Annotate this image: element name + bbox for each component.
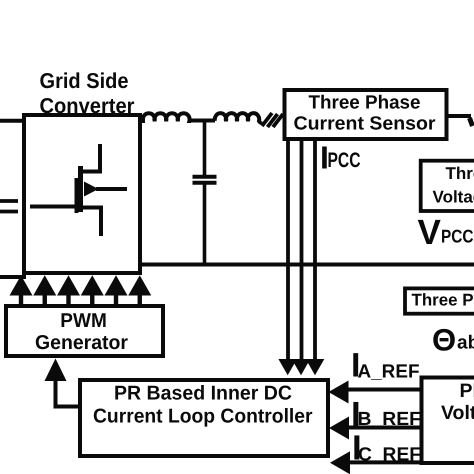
svg-text:Three P: Three P [412,291,474,310]
svg-text:C_REF: C_REF [358,445,421,466]
wire IC_REF [347,460,422,464]
transistor gate bar [75,178,79,213]
PLL voltage controller box (cut off) [422,378,474,464]
arrowhead IB_REF [329,417,349,440]
svg-text:V: V [418,213,442,252]
three phase voltage sensor box (cut off) [421,161,474,211]
svg-text:Θ: Θ [432,323,456,358]
capacitor C1 [203,121,207,175]
wire squiggle to sensor [259,122,263,124]
svg-text:Volta: Volta [441,402,474,424]
wire feedback PR to PWM [56,378,81,407]
wire sensor to grid [446,114,471,118]
svg-text:Current Loop Controller: Current Loop Controller [93,406,313,428]
gate drive arrow 1 [10,275,33,306]
transistor Q1 [30,144,127,236]
three phase PLL box (cut off) [405,288,474,313]
DC source symbol [0,201,18,212]
svg-text:Voltage: Voltage [433,188,474,207]
wire sensor phase C down [313,140,317,362]
svg-text:PR Based Inner DC: PR Based Inner DC [114,383,292,405]
wire DC- rail left [0,275,26,279]
gate drive arrow 6 [128,275,151,306]
inductor L1 [140,113,191,121]
PWM generator box [6,306,163,356]
gate drive arrow 5 [105,275,128,306]
wire sensor phase B down [300,140,304,362]
transistor body arrow [84,182,99,197]
svg-text:Converter: Converter [40,94,136,118]
transistor drain [80,144,100,172]
svg-text:B_REF: B_REF [358,409,422,430]
wire DC+ rail left [0,119,24,123]
arrowhead feedback to PWM [45,359,67,382]
svg-text:Grid Side: Grid Side [40,69,129,93]
three phase current sensor box [285,90,447,139]
svg-text:Three: Three [446,164,474,183]
arrowhead sensor C [306,359,325,375]
transistor source [80,208,101,237]
gate drive arrow 3 [57,275,80,306]
svg-text:Current Sensor: Current Sensor [294,114,437,135]
inductor L2 [215,113,260,122]
arrowhead sensor B [292,359,311,375]
PR controller box [80,380,328,456]
svg-text:PCC: PCC [328,149,361,172]
arrowhead IA_REF [329,381,349,404]
arrowhead IC_REF [330,451,350,474]
grid stub mark [470,118,473,126]
arrowhead sensor A [278,359,297,375]
transistor gate wire [30,205,76,209]
svg-text:PCC: PCC [441,226,474,247]
wire AC bus from converter to right edge [140,263,474,267]
wire between inductors [190,119,215,123]
svg-text:A_REF: A_REF [358,362,420,383]
svg-text:Three Phase: Three Phase [309,93,421,114]
transistor channel bar [78,166,83,212]
wire IB_REF [346,426,422,430]
svg-text:abc: abc [457,333,474,354]
svg-text:Pl: Pl [460,380,474,402]
svg-text:PWM: PWM [60,310,107,332]
gate drive arrow 2 [33,275,56,306]
wire IA_REF [345,388,422,392]
transistor body wire [96,187,127,191]
converter box [24,115,140,273]
svg-text:Generator: Generator [35,332,128,354]
wire sensor phase A down [286,140,290,362]
gate drive arrow 4 [81,275,104,306]
